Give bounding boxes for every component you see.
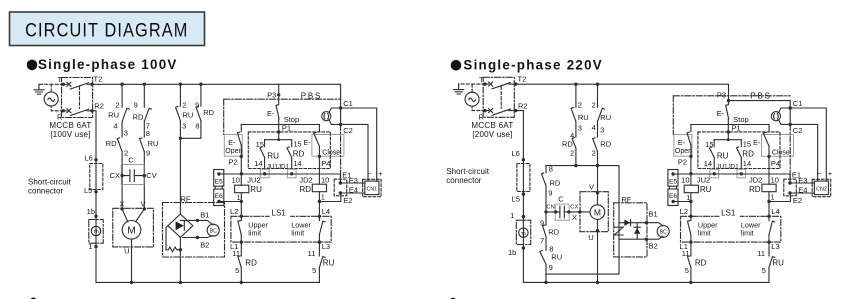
- svg-text:11: 11: [308, 249, 316, 258]
- node L6 r: [522, 158, 525, 161]
- svg-text:CX: CX: [110, 171, 120, 180]
- svg-text:RF: RF: [621, 195, 631, 204]
- wire loop left lower2: [545, 237, 547, 251]
- svg-text:U: U: [588, 233, 593, 242]
- svg-text:RU: RU: [772, 258, 784, 267]
- svg-text:5: 5: [312, 266, 316, 275]
- node P3: [277, 93, 280, 96]
- svg-text:RU: RU: [578, 113, 589, 122]
- node node L bus: [240, 281, 243, 284]
- svg-text:C2: C2: [793, 126, 803, 135]
- svg-text:3: 3: [182, 122, 186, 131]
- contact RD 9-8 blade: [196, 107, 201, 121]
- svg-text:2: 2: [570, 148, 574, 157]
- node node varistor join: [179, 248, 182, 251]
- node X: [120, 207, 123, 210]
- node E6: [671, 200, 674, 203]
- node E6: [217, 200, 220, 203]
- node node CN cap: [544, 210, 547, 213]
- contact E-Stop blade: [726, 105, 729, 119]
- svg-text:15: 15: [256, 140, 264, 149]
- node node L bus: [689, 281, 692, 284]
- svg-text:L6: L6: [84, 154, 92, 163]
- wire to L3: [318, 235, 320, 242]
- svg-text:3: 3: [578, 123, 582, 132]
- svg-text:7: 7: [540, 236, 544, 245]
- wire breaker R stubs: [63, 110, 92, 112]
- pushbutton E-Open: [224, 135, 242, 157]
- PBS box edges: [673, 96, 790, 135]
- svg-text:X: X: [572, 213, 577, 222]
- rectifier block RF: [163, 195, 225, 285]
- contact JU1 blade: [710, 147, 715, 158]
- node E2: [339, 191, 342, 194]
- svg-text:1: 1: [88, 242, 92, 251]
- motor circle r: [590, 205, 605, 220]
- breaker pole T blade: [70, 83, 88, 89]
- svg-text:14: 14: [293, 159, 301, 168]
- lamp circle: [771, 112, 780, 121]
- svg-text:RU: RU: [148, 139, 159, 148]
- svg-text:RU: RU: [250, 185, 262, 194]
- contact RU 2-3 blade: [176, 107, 181, 121]
- svg-text:LS1: LS1: [272, 208, 287, 217]
- svg-text:MCCB 6AT: MCCB 6AT: [471, 121, 513, 130]
- interlock RU blade: [769, 257, 775, 268]
- svg-text:C: C: [558, 195, 564, 204]
- capacitor stub wires: [122, 175, 144, 177]
- node L4: [318, 215, 321, 218]
- capacitor box r: [555, 204, 569, 220]
- svg-text:RD: RD: [749, 185, 761, 194]
- wire P3 stub: [278, 84, 280, 104]
- contact E-Open blade: [237, 132, 241, 145]
- wire E2 to connector: [340, 192, 364, 194]
- svg-text:RU: RU: [551, 253, 562, 262]
- node U r: [596, 229, 599, 232]
- wire AC top tap R: [471, 84, 473, 92]
- node X r: [578, 210, 581, 213]
- wire diode vertical: [636, 223, 638, 240]
- svg-text:CN: CN: [546, 205, 554, 211]
- capacitor box: [121, 165, 144, 185]
- svg-text:RU: RU: [600, 113, 611, 122]
- node L2: [240, 215, 243, 218]
- svg-text:−: −: [367, 169, 372, 178]
- svg-text:E-: E-: [753, 140, 761, 147]
- svg-text:X: X: [119, 199, 124, 208]
- svg-text:E-: E-: [717, 109, 725, 118]
- node P1: [727, 130, 730, 133]
- svg-text:B1: B1: [649, 210, 658, 219]
- upper limit blade: [688, 221, 691, 235]
- MCCB breaker box r: [483, 77, 514, 117]
- svg-text:RD: RD: [562, 139, 573, 148]
- svg-text:E-: E-: [267, 109, 275, 118]
- svg-text:M: M: [127, 226, 135, 237]
- motor M1: [113, 199, 154, 284]
- node T2: [90, 83, 93, 86]
- node CX: [120, 174, 123, 177]
- svg-text:JD2: JD2: [299, 175, 312, 184]
- lower limit blade: [319, 221, 325, 235]
- wire top bus L1: [92, 84, 341, 108]
- wire to bus: [690, 268, 692, 283]
- svg-text:RF: RF: [181, 195, 191, 204]
- dashed link E5-E6: [669, 186, 676, 189]
- node CV: [143, 174, 146, 177]
- wire col1 upper: [575, 84, 577, 107]
- svg-text:14: 14: [704, 159, 712, 168]
- RF box: [163, 203, 225, 258]
- node E2: [788, 191, 791, 194]
- node R2: [90, 109, 93, 112]
- wire E2 to connector: [790, 192, 814, 194]
- svg-text:14: 14: [254, 159, 262, 168]
- interlock RD blade: [688, 256, 691, 268]
- wire L1 down: [690, 242, 692, 256]
- node B2: [196, 236, 199, 239]
- svg-text:Short-circuit: Short-circuit: [446, 167, 489, 176]
- connector CN1: [363, 179, 382, 196]
- svg-text:E-: E-: [678, 140, 686, 147]
- wire E5 rail to E1: [673, 174, 790, 183]
- wire to P1 and bracket: [278, 119, 280, 140]
- svg-text:1: 1: [510, 211, 514, 220]
- wire B2 branch r: [619, 236, 663, 239]
- svg-text:L2: L2: [680, 207, 688, 216]
- svg-text:+: +: [378, 169, 383, 178]
- node JU1 junction: [263, 172, 266, 175]
- wire to L1: [690, 235, 692, 242]
- svg-text:B2: B2: [200, 240, 209, 249]
- breaker trip link r: [500, 86, 502, 108]
- wire bottom bus R: [523, 281, 769, 283]
- svg-text:JU1JD1: JU1JD1: [716, 163, 739, 170]
- wire R2 down column R: [516, 111, 524, 283]
- thermal box r: [516, 220, 530, 244]
- node node RF bus: [179, 281, 182, 284]
- svg-text:RD: RD: [299, 185, 311, 194]
- contact RU col1 blade: [571, 108, 576, 122]
- wire E-Close stub: [768, 125, 770, 132]
- node P2: [689, 155, 692, 158]
- wire E5 rail to E1: [219, 174, 341, 183]
- wire E-Open stub: [240, 125, 242, 132]
- svg-text:T2: T2: [518, 74, 527, 83]
- wire E6 rail: [673, 201, 691, 203]
- AC source G1: [44, 92, 58, 106]
- rectifier block RF right: [614, 195, 670, 257]
- svg-text:RU: RU: [183, 111, 194, 120]
- svg-text:9: 9: [134, 101, 138, 110]
- svg-text:−: −: [817, 169, 822, 178]
- wire to P4: [318, 146, 320, 156]
- breaker trip link: [79, 87, 81, 109]
- terminal E6: [214, 189, 224, 206]
- contact E-Close blade: [314, 132, 320, 146]
- wire P2 to coil: [690, 156, 692, 185]
- wire to bus end: [318, 268, 320, 283]
- terminal E5: [668, 170, 678, 187]
- pushbutton E-Close: [312, 135, 344, 157]
- interlock RU blade: [319, 257, 325, 268]
- node E1: [339, 181, 342, 184]
- junction box JD1: [737, 169, 746, 178]
- varistor right: [614, 227, 623, 235]
- wire C1-C2: [340, 108, 342, 124]
- contact RD 3-2 blade: [117, 138, 122, 152]
- svg-text:CN1: CN1: [367, 186, 378, 192]
- svg-text:JU2: JU2: [247, 175, 260, 184]
- junction box JU1: [260, 169, 269, 178]
- node node 1: [94, 245, 97, 248]
- svg-text:RU: RU: [717, 152, 729, 161]
- right circuit 220V: [446, 74, 769, 284]
- motor M2: [580, 182, 608, 284]
- svg-text:CIRCUIT DIAGRAM: CIRCUIT DIAGRAM: [25, 19, 188, 40]
- node E5: [217, 172, 220, 175]
- node node E6 join: [689, 200, 692, 203]
- breaker pole T x-mark: [67, 82, 71, 86]
- svg-text:CN2: CN2: [816, 186, 827, 192]
- wire dashed R to AC: [51, 106, 63, 111]
- bullet heading right: [451, 60, 462, 71]
- node R: [62, 109, 65, 112]
- svg-text:9: 9: [548, 189, 552, 198]
- wire E1 to connector: [790, 182, 814, 184]
- svg-text:8: 8: [146, 129, 150, 138]
- title text: [25, 19, 188, 40]
- wire JD1 stub: [291, 140, 293, 147]
- contact RD 8-9 blade r: [542, 173, 547, 186]
- svg-text:connector: connector: [446, 176, 481, 185]
- terminals E1 E2: [784, 179, 797, 196]
- partial bullet bottom-left 2: [450, 298, 457, 299]
- svg-text:T2: T2: [94, 75, 103, 84]
- wire breaker R stubs r: [485, 110, 516, 112]
- wire loop left upper: [545, 166, 547, 173]
- svg-text:5: 5: [235, 266, 239, 275]
- wire colA upper: [121, 84, 123, 107]
- node node loop bus: [544, 281, 547, 284]
- breaker pole R blade: [70, 109, 88, 115]
- wire upper limit stub: [690, 216, 692, 220]
- svg-text:RU: RU: [700, 185, 712, 194]
- svg-text:P2: P2: [678, 157, 687, 166]
- contact RU 8-9 blade r: [540, 251, 546, 265]
- node L1: [240, 240, 243, 243]
- svg-text:Short-circuit: Short-circuit: [28, 178, 71, 187]
- node node E6 join: [240, 200, 243, 203]
- wire coil to L4: [318, 192, 320, 217]
- node T: [62, 83, 65, 86]
- node node 1 r: [522, 215, 525, 218]
- node bus tap B: [143, 83, 146, 86]
- svg-text:8: 8: [549, 165, 553, 174]
- node JU1 junction: [713, 172, 716, 175]
- svg-text:L3: L3: [322, 242, 330, 251]
- wire colB mid: [143, 122, 145, 137]
- node bracket junction: [277, 138, 280, 141]
- wire L1 down: [240, 242, 242, 256]
- BC circle r: [657, 225, 669, 237]
- wire E-Open stub: [690, 125, 692, 132]
- wire E-Close stub: [318, 125, 320, 132]
- svg-text:RU: RU: [323, 258, 335, 267]
- wire C1-C2: [789, 108, 791, 124]
- svg-text:connector: connector: [28, 187, 63, 196]
- contact E-Open blade: [687, 132, 691, 145]
- wire U to bus: [131, 239, 133, 282]
- node C1: [789, 106, 792, 109]
- RF box r: [614, 203, 647, 257]
- BC circle: [207, 224, 219, 236]
- svg-text:E5: E5: [669, 178, 677, 185]
- svg-text:RU: RU: [108, 111, 119, 120]
- wire loop to bus: [545, 264, 547, 282]
- svg-text:P3: P3: [267, 91, 276, 100]
- svg-text:V: V: [589, 182, 594, 191]
- wire capacitor rail r: [546, 211, 590, 213]
- node CN: [554, 210, 557, 213]
- terminal E5: [214, 170, 224, 187]
- partial bullet bottom-left 1: [30, 298, 37, 299]
- ground: [454, 84, 464, 94]
- svg-text:5: 5: [762, 266, 766, 275]
- svg-text:RD: RD: [600, 139, 611, 148]
- contact JD1 blade: [737, 147, 742, 158]
- wire colD upper: [200, 84, 202, 106]
- node bus tap col1: [574, 83, 577, 86]
- interlock RD blade: [238, 256, 241, 268]
- svg-text:L5: L5: [84, 186, 92, 195]
- capacitor plates r: [560, 206, 564, 218]
- svg-text:C: C: [128, 156, 134, 165]
- svg-text:LS1: LS1: [721, 208, 736, 217]
- node L5: [94, 190, 97, 193]
- contact JU1 blade: [260, 147, 265, 158]
- node node U bus: [130, 281, 133, 284]
- wire colD join: [180, 121, 201, 139]
- node E1: [788, 181, 791, 184]
- wire lower limit stub: [768, 216, 770, 220]
- node T r: [483, 82, 486, 85]
- svg-text:11: 11: [757, 249, 765, 258]
- wire coil to L4: [768, 192, 770, 217]
- svg-text:E5: E5: [215, 178, 223, 185]
- MCCB breaker box: [62, 78, 93, 118]
- wire colA mid: [121, 122, 123, 137]
- svg-text:L4: L4: [322, 207, 330, 216]
- svg-text:E3: E3: [798, 176, 807, 185]
- svg-text:RD: RD: [245, 258, 257, 267]
- LS1 label backing: [270, 213, 291, 219]
- node L1: [689, 240, 692, 243]
- svg-text:L2: L2: [230, 207, 238, 216]
- svg-text:L3: L3: [771, 242, 779, 251]
- dashed link E5-E6: [215, 186, 222, 189]
- wire to P4: [768, 146, 770, 156]
- node R r: [483, 109, 486, 112]
- svg-text:8: 8: [195, 122, 199, 131]
- svg-text:[100V use]: [100V use]: [50, 130, 90, 139]
- svg-text:L4: L4: [771, 207, 779, 216]
- wires into motor: [122, 209, 144, 222]
- contact RD 9-7 blade r: [543, 225, 546, 237]
- contact JD1 blade: [287, 147, 292, 158]
- junction box JU1: [710, 169, 719, 178]
- wire to bus: [240, 268, 242, 283]
- svg-text:E4: E4: [798, 185, 807, 194]
- wire P3 stub: [728, 101, 730, 105]
- contact E-Stop blade: [276, 105, 279, 119]
- wire JU1 lower: [713, 157, 715, 169]
- wire col2 to V: [597, 152, 599, 193]
- limit switch block LS1: [680, 207, 781, 251]
- node B2 r: [645, 238, 648, 241]
- svg-text:14: 14: [743, 159, 751, 168]
- svg-text:E3: E3: [349, 176, 358, 185]
- node CX r: [567, 210, 570, 213]
- svg-text:E2: E2: [793, 196, 802, 205]
- wire to P2: [690, 145, 692, 156]
- svg-text:Close: Close: [322, 149, 340, 156]
- svg-text:RU: RU: [267, 152, 279, 161]
- svg-text:C1: C1: [343, 99, 353, 108]
- node L2: [689, 215, 692, 218]
- wire dashed R to AC R: [472, 106, 485, 110]
- svg-text:M: M: [594, 207, 601, 217]
- breaker pole T blade r: [492, 83, 510, 89]
- wire lower limit stub: [318, 216, 320, 220]
- node L3: [767, 240, 770, 243]
- contact RD 9-7 blade: [144, 108, 151, 121]
- LS1 label backing: [719, 213, 740, 219]
- short-circuit connector box r: [517, 164, 530, 192]
- svg-text:Single-phase 100V: Single-phase 100V: [38, 57, 178, 72]
- wire bottom bus: [96, 281, 319, 283]
- PBS right edge: [340, 124, 342, 179]
- svg-text:R2: R2: [518, 101, 528, 110]
- wire JU1 stub: [264, 140, 266, 147]
- bullet heading left: [27, 60, 38, 71]
- breaker pole R x-mark r: [489, 109, 493, 113]
- node B1 r: [645, 221, 648, 224]
- wire JU1 lower: [264, 157, 266, 169]
- wire colB lower: [143, 152, 145, 209]
- wire colC upper: [179, 84, 181, 106]
- node node E2 rail join: [318, 200, 321, 203]
- wire to P1 and bracket: [727, 119, 729, 140]
- diode D1 right: [624, 220, 630, 226]
- title box CIRCUIT DIAGRAM: [10, 12, 205, 46]
- svg-text:BC: BC: [210, 228, 217, 234]
- wire JU1 stub: [713, 140, 715, 147]
- svg-text:RD: RD: [106, 139, 117, 148]
- node node col1 rail: [574, 164, 577, 167]
- svg-text:2: 2: [578, 101, 582, 110]
- node bus tap D: [199, 83, 202, 86]
- lower limit blade: [769, 221, 775, 235]
- svg-text:5: 5: [685, 266, 689, 275]
- wire motor top rail: [546, 165, 619, 167]
- contact RU 2-4 blade: [122, 108, 129, 121]
- wire col2 mid: [597, 122, 599, 137]
- wire coil to L2: [240, 193, 242, 217]
- node P4: [318, 155, 321, 158]
- svg-text:1: 1: [771, 194, 775, 201]
